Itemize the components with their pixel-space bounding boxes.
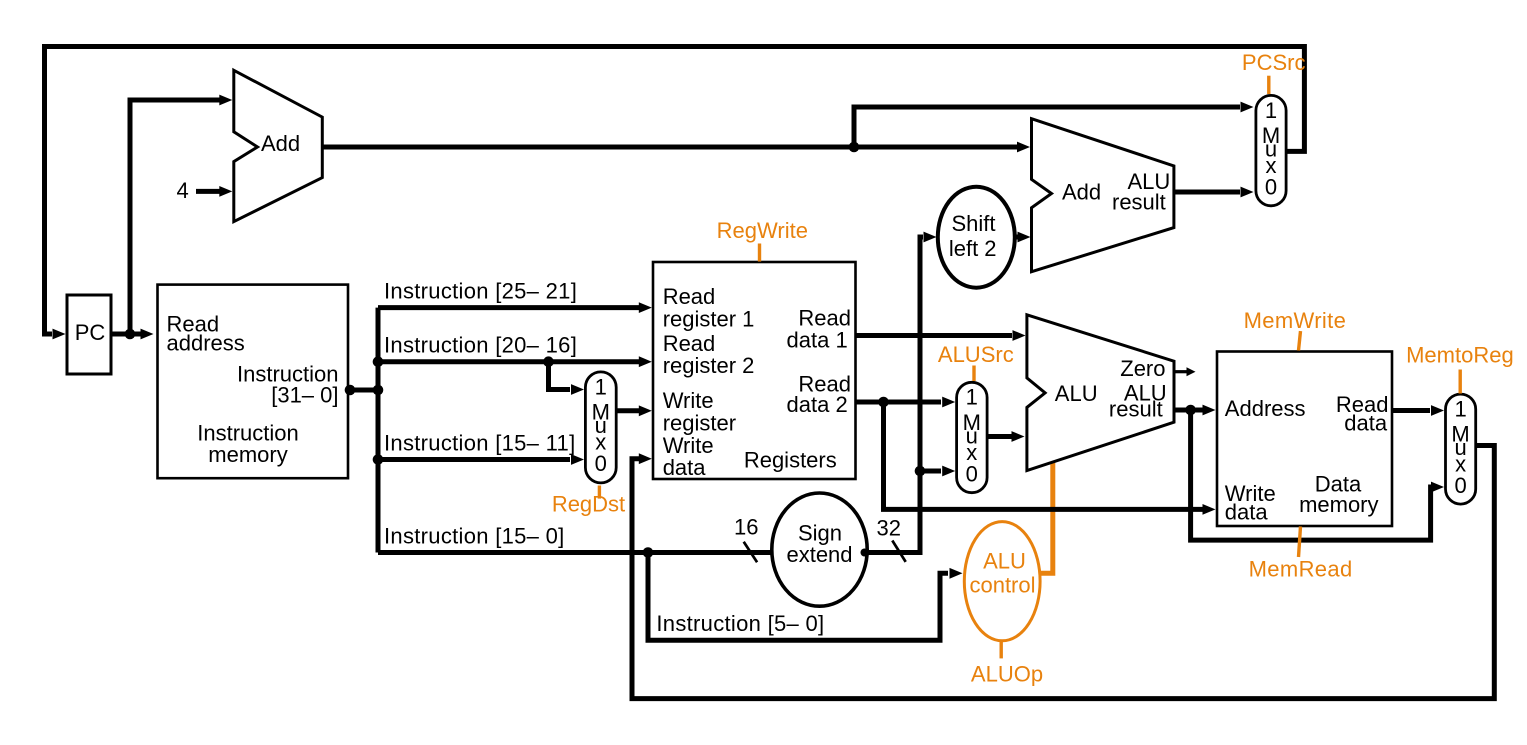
node read-data-2 branch junction — [878, 397, 889, 408]
node PC+4 junction — [849, 142, 860, 153]
wire ALU result to Data memory Address — [1174, 408, 1204, 413]
arrowhead 4 into Add — [219, 186, 232, 197]
adder Add (branch) — [1032, 119, 1174, 272]
arrowhead into Registers Write data — [639, 453, 652, 464]
svg-text:RegDst: RegDst — [552, 492, 625, 517]
wire ALUSrc mux output to ALU — [989, 434, 1013, 439]
svg-text:memory: memory — [208, 442, 287, 467]
wire Add result (PC+4) to branch Add — [322, 145, 1017, 150]
svg-text:PC: PC — [75, 320, 106, 345]
arrowhead into PC — [53, 329, 66, 340]
wire instruction bus vertical — [376, 308, 381, 553]
tick MemWrite — [1299, 331, 1301, 350]
svg-text:1: 1 — [1454, 397, 1466, 422]
ALU U1 — [1027, 315, 1174, 471]
svg-text:left 2: left 2 — [949, 236, 997, 261]
arrowhead into Read register 2 — [639, 356, 652, 367]
tick RegWrite — [758, 244, 761, 262]
svg-text:Instruction [15– 0]: Instruction [15– 0] — [384, 524, 565, 549]
svg-text:result: result — [1109, 397, 1163, 422]
svg-text:register: register — [663, 410, 736, 435]
wire Data memory Read data to MemtoReg mux input 1 — [1392, 408, 1430, 413]
svg-text:ALUSrc: ALUSrc — [938, 342, 1014, 367]
wire instruction memory output stub — [348, 388, 378, 393]
arrowhead into RegDst mux input 1 — [571, 384, 584, 395]
svg-text:4: 4 — [177, 178, 189, 203]
wire ALU result branch around to MemtoReg mux input 0 — [1191, 410, 1431, 540]
slash 16 — [744, 542, 757, 563]
wire RegDst mux output to Write register — [618, 408, 640, 413]
svg-text:data: data — [1225, 499, 1269, 524]
wire Zero output (thin) — [1174, 370, 1188, 373]
svg-text:memory: memory — [1299, 492, 1378, 517]
arrowhead into ALU top input — [1013, 330, 1026, 341]
arrowhead into instruction memory Read address — [141, 329, 154, 340]
arrowhead into ALUSrc mux input 0 — [942, 466, 955, 477]
svg-text:Instruction [20– 16]: Instruction [20– 16] — [384, 333, 577, 358]
svg-text:register 1: register 1 — [663, 306, 755, 331]
node instr20-16 branch junction — [543, 356, 554, 367]
PC box — [67, 295, 111, 374]
adder Add (PC+4) — [234, 70, 322, 221]
wire Shift left 2 output to branch Add — [1014, 235, 1018, 240]
mux PCSrc — [1256, 95, 1286, 205]
wire MemtoReg mux output back to Registers Write data — [632, 446, 1494, 699]
svg-text:Add: Add — [1062, 180, 1101, 205]
arrowhead into MemtoReg mux input 1 — [1431, 405, 1444, 416]
svg-text:32: 32 — [877, 516, 901, 541]
arrowhead into ALU control — [950, 568, 963, 579]
shift left 2 ellipse — [938, 187, 1015, 288]
wire PC out to instruction memory — [111, 332, 142, 337]
svg-text:control: control — [969, 573, 1035, 598]
svg-text:data: data — [1344, 411, 1388, 436]
svg-text:0: 0 — [966, 461, 978, 486]
node PC-out junction — [125, 329, 136, 340]
svg-text:ALU: ALU — [1055, 381, 1098, 406]
arrowhead RegDst mux out into Write register — [639, 405, 652, 416]
svg-text:extend: extend — [786, 542, 852, 567]
svg-text:0: 0 — [1454, 473, 1466, 498]
svg-text:Address: Address — [1225, 396, 1306, 421]
svg-text:Registers: Registers — [744, 448, 837, 473]
svg-text:MemRead: MemRead — [1249, 557, 1353, 582]
tick ALUSrc — [972, 366, 975, 382]
ALU control ellipse (orange) — [964, 522, 1040, 641]
node sign-ext to mux0 junction — [915, 466, 926, 477]
wire ALU control to ALU (orange, under black wires) — [1038, 455, 1053, 573]
tick MemtoReg — [1458, 370, 1461, 394]
wire Instruction[25-21] to Read register 1 — [378, 305, 639, 310]
svg-text:address: address — [167, 330, 245, 355]
svg-text:MemtoReg: MemtoReg — [1406, 343, 1514, 368]
svg-text:Zero: Zero — [1120, 356, 1165, 381]
arrowhead into RegDst mux input 0 — [571, 454, 584, 465]
svg-text:Instruction [25– 21]: Instruction [25– 21] — [384, 279, 577, 304]
svg-text:1: 1 — [966, 385, 978, 410]
mux MemtoReg — [1446, 394, 1476, 504]
svg-text:data 2: data 2 — [787, 392, 848, 417]
svg-text:data 1: data 1 — [787, 327, 848, 352]
data memory box — [1217, 352, 1392, 527]
arrowhead into PCSrc mux input 1 — [1241, 102, 1254, 113]
svg-text:Instruction [15– 11]: Instruction [15– 11] — [384, 431, 576, 456]
wire Instruction[15-11] to RegDst mux input 0 — [378, 457, 570, 462]
arrowhead Shift left 2 out into branch Add — [1018, 232, 1031, 243]
svg-text:data: data — [663, 455, 707, 480]
node bus row3 junction — [373, 454, 384, 465]
wire Instruction[20-16] branch to RegDst mux input 1 — [549, 362, 571, 390]
svg-text:ALU: ALU — [983, 549, 1026, 574]
wire Instruction[5-0] down and to ALU control — [648, 553, 948, 641]
wire branch Add result to PCSrc mux input 0 — [1174, 190, 1240, 195]
svg-text:result: result — [1112, 189, 1166, 214]
mux ALUSrc — [957, 382, 988, 492]
wire Instruction[20-16] to Read register 2 — [378, 359, 639, 364]
svg-text:0: 0 — [1265, 175, 1277, 200]
node sign-extend-out junction — [861, 549, 869, 557]
wire Read data 2 to ALUSrc mux input 1 — [856, 400, 942, 405]
svg-text:16: 16 — [734, 515, 758, 540]
sign extend ellipse — [772, 493, 867, 606]
arrowhead into Data memory Write data — [1203, 504, 1216, 515]
wire PCSrc-mux-out top loop back to PC — [45, 47, 1305, 335]
arrowhead ALUSrc mux out into ALU — [1012, 431, 1025, 442]
node bus row2 junction — [373, 356, 384, 367]
tick RegDst — [598, 486, 601, 499]
svg-text:ALUOp: ALUOp — [971, 661, 1043, 686]
wire Read data 1 to ALU — [856, 333, 1013, 338]
tick MemRead — [1299, 527, 1301, 558]
tick PCSrc — [1267, 76, 1270, 94]
node ALU-result branch junction — [1185, 405, 1196, 416]
wire 4 to Add — [196, 189, 220, 194]
svg-text:0: 0 — [595, 451, 607, 476]
wire Instruction[15-0] to sign extend — [378, 550, 772, 555]
wire PC+4 branch up to PCSrc mux input 1 — [854, 107, 1240, 147]
svg-text:Write: Write — [663, 388, 714, 413]
svg-text:register 2: register 2 — [663, 353, 755, 378]
mux RegDst — [585, 372, 616, 483]
wire sign extend output up to Shift left 2 — [866, 237, 923, 553]
svg-text:Instruction [5– 0]: Instruction [5– 0] — [656, 611, 824, 636]
instruction memory box — [158, 285, 349, 479]
tick ALUOp — [1000, 642, 1003, 659]
arrowhead into Add top input — [219, 95, 232, 106]
arrowhead into ALUSrc mux input 1 — [942, 397, 955, 408]
svg-text:1: 1 — [1265, 98, 1277, 123]
node bus mem-out junction — [373, 385, 384, 396]
node instr15-0 branch junction — [643, 547, 654, 558]
arrowhead into PCSrc mux input 0 — [1241, 187, 1254, 198]
arrowhead into Shift left 2 — [924, 232, 937, 243]
svg-text:[31– 0]: [31– 0] — [271, 382, 338, 407]
wire PC out branch up to Add — [130, 100, 220, 334]
svg-text:PCSrc: PCSrc — [1242, 50, 1306, 75]
node instruction port junction — [345, 385, 356, 396]
registers box — [653, 262, 856, 479]
arrowhead into Read register 1 — [639, 302, 652, 313]
svg-text:MemWrite: MemWrite — [1244, 308, 1347, 333]
arrowhead into branch Add top input — [1017, 142, 1030, 153]
wire sign extend branch to ALUSrc mux input 0 — [920, 469, 941, 474]
svg-text:RegWrite: RegWrite — [717, 218, 808, 243]
svg-text:Add: Add — [261, 131, 300, 156]
svg-text:1: 1 — [595, 374, 607, 399]
arrowhead into MemtoReg mux input 0 — [1431, 482, 1444, 493]
slash 32 — [892, 541, 905, 562]
svg-text:Shift: Shift — [951, 211, 995, 236]
wire Read data 2 branch to Data memory Write data — [884, 402, 1205, 509]
arrowhead ALU result into Data memory Address — [1203, 405, 1216, 416]
